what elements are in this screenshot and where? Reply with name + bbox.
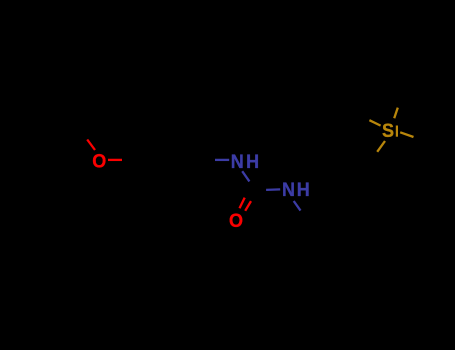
svg-text:S: S <box>382 120 394 142</box>
svg-text:H: H <box>297 179 310 201</box>
svg-text:N: N <box>282 179 295 201</box>
svg-text:H: H <box>246 151 259 173</box>
svg-text:O: O <box>229 210 243 232</box>
svg-text:N: N <box>231 151 244 173</box>
svg-text:O: O <box>92 151 106 173</box>
